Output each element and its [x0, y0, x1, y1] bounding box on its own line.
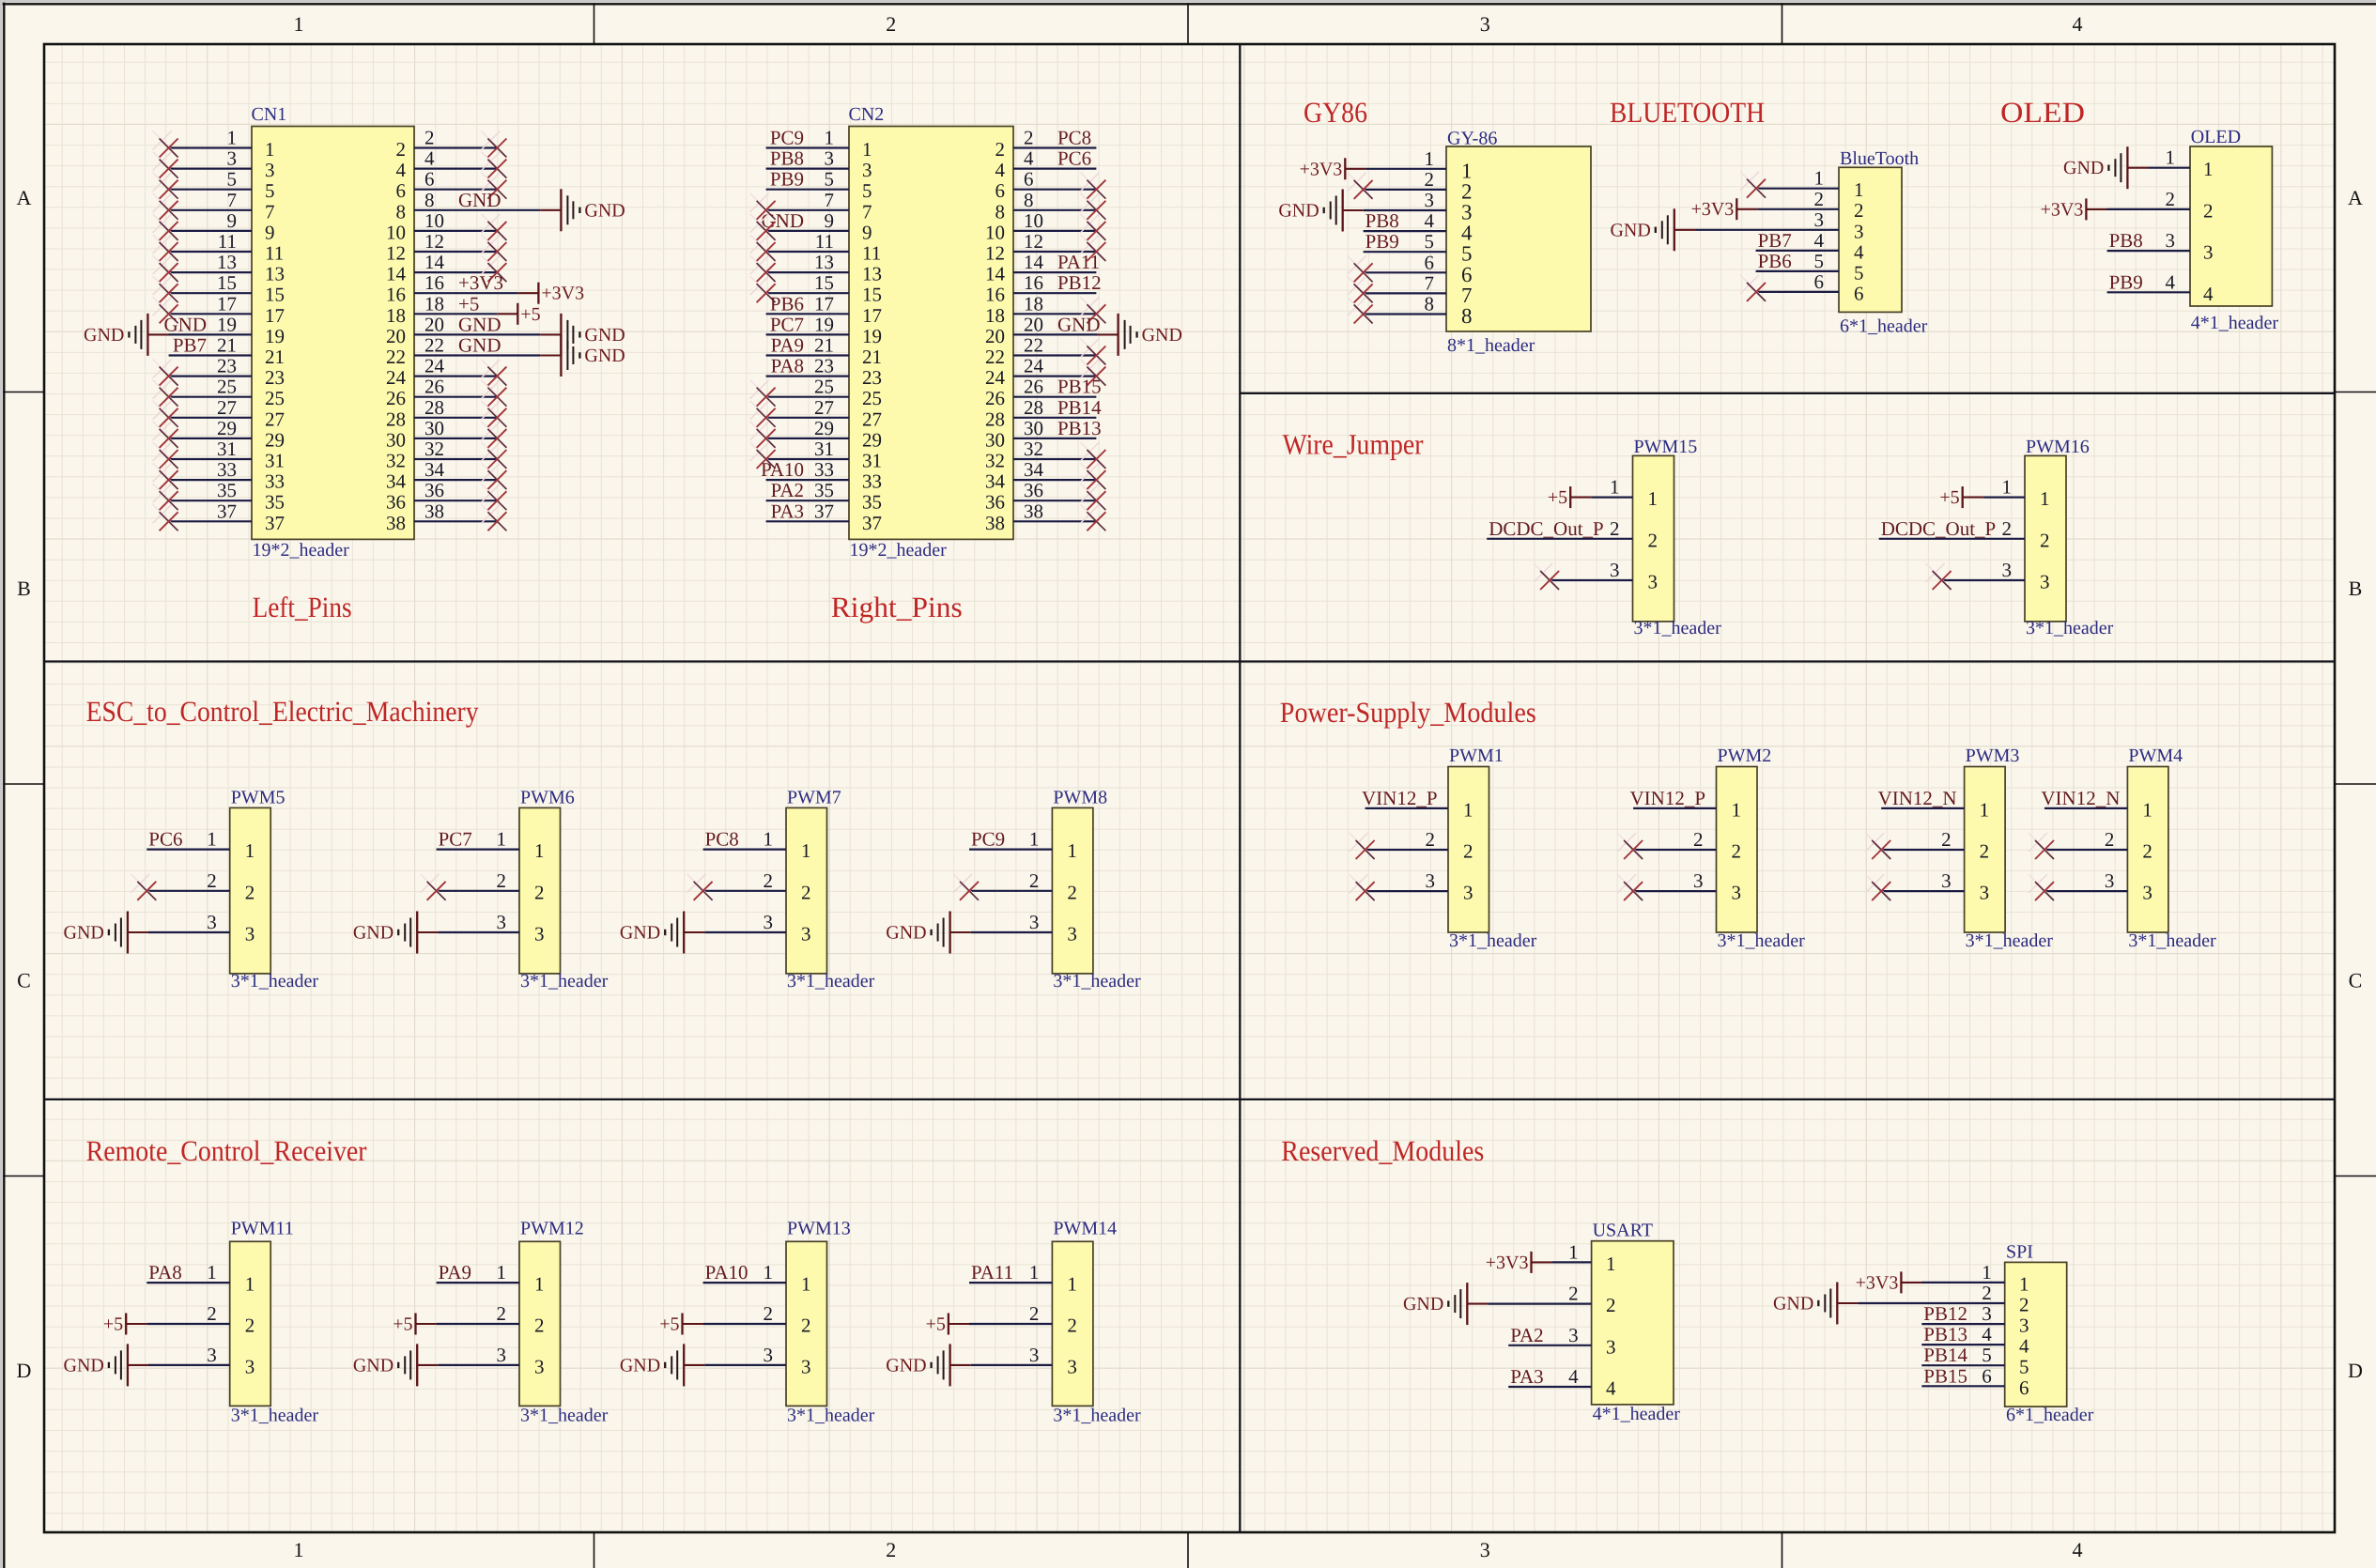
- pin number 32 (CN2): [1024, 438, 1043, 460]
- wire PWM11 pin 3: [148, 1364, 230, 1366]
- svg-text:38: 38: [386, 512, 406, 534]
- wire PWM16 pin 3: [1942, 579, 2025, 581]
- pin number 30 (CN2): [1024, 417, 1043, 439]
- wire PWM16 pin 2: [1879, 538, 2025, 540]
- PWM16 inside pin numbers: [2040, 487, 2050, 592]
- no-connect X PWM2 pin 2: [1617, 833, 1643, 859]
- svg-text:3: 3: [1463, 882, 1473, 904]
- section title Wire_Jumper: [1283, 428, 1425, 461]
- no-connect X CN1 pin 28: [481, 401, 506, 427]
- svg-text:PC8: PC8: [705, 828, 739, 851]
- svg-text:5: 5: [825, 168, 835, 191]
- svg-text:10: 10: [386, 221, 406, 243]
- svg-text:+3V3: +3V3: [458, 271, 503, 294]
- no-connect X CN1 pin 1: [153, 131, 178, 158]
- no-connect X CN1 pin 26: [481, 380, 506, 407]
- ground GND at PWM8 pin 3: [886, 912, 949, 954]
- wire CN2 pin 34: [1013, 479, 1096, 481]
- svg-text:GND: GND: [584, 325, 625, 346]
- svg-text:34: 34: [985, 470, 1006, 493]
- svg-text:Right_Pins: Right_Pins: [831, 591, 963, 623]
- no-connect X CN2 pin 36: [1080, 484, 1105, 510]
- net label GND (CN1 pin 22): [458, 334, 501, 357]
- svg-text:PA9: PA9: [439, 1261, 471, 1284]
- pin number 9 (CN2): [825, 209, 835, 232]
- no-connect X CN2 pin 7: [750, 193, 776, 220]
- svg-text:PWM13: PWM13: [787, 1219, 851, 1239]
- net label PB6 (BlueTooth pin 5): [1758, 250, 1792, 272]
- svg-text:26: 26: [985, 387, 1005, 409]
- pin number 2 (PWM16): [2002, 517, 2013, 540]
- svg-text:26: 26: [424, 376, 444, 398]
- svg-text:PB14: PB14: [1057, 396, 1102, 419]
- svg-text:3*1_header: 3*1_header: [1634, 618, 1722, 638]
- pin number 35 (CN1): [217, 479, 237, 501]
- svg-text:3: 3: [265, 159, 275, 181]
- net label GND (CN1 pin 19): [164, 313, 208, 335]
- svg-text:31: 31: [265, 450, 285, 472]
- pin number 3 (PWM7): [764, 911, 774, 933]
- svg-text:11: 11: [265, 242, 284, 265]
- pin number 19 (CN1): [217, 313, 237, 335]
- svg-text:A: A: [2348, 186, 2363, 209]
- net label PB9 (OLED pin 4): [2109, 270, 2143, 293]
- svg-text:5: 5: [265, 179, 275, 202]
- header SPI (6*1_header): [2005, 1242, 2094, 1425]
- svg-text:28: 28: [985, 407, 1005, 430]
- wire PWM5 pin 1: [147, 848, 229, 850]
- svg-text:GND: GND: [164, 313, 208, 335]
- ground GND at PWM7 pin 3: [620, 912, 684, 954]
- svg-text:GND: GND: [886, 923, 926, 944]
- wire GY-86 pin 5: [1364, 251, 1446, 253]
- svg-text:25: 25: [814, 376, 834, 398]
- net label PB8 (GY-86 pin 4): [1365, 209, 1399, 232]
- pin number 3 (PWM11): [207, 1344, 217, 1366]
- no-connect X PWM7 pin 2: [687, 874, 713, 900]
- no-connect X CN1 pin 13: [153, 255, 178, 282]
- svg-text:CN1: CN1: [252, 104, 287, 125]
- svg-text:4*1_header: 4*1_header: [1593, 1404, 1681, 1424]
- pin number 5 (SPI): [1982, 1344, 1992, 1366]
- no-connect X CN2 pin 31: [750, 442, 776, 469]
- wire GY-86 pin 1: [1365, 168, 1446, 170]
- svg-text:13: 13: [217, 251, 237, 273]
- wire PWM14 pin 2: [969, 1323, 1052, 1325]
- svg-text:3*1_header: 3*1_header: [1449, 930, 1537, 951]
- svg-text:GND: GND: [84, 325, 124, 346]
- net label PB8 (OLED pin 3): [2109, 229, 2143, 252]
- svg-text:15: 15: [862, 284, 882, 306]
- pin number 5 (CN2): [825, 168, 835, 191]
- wire CN2 pin 4: [1013, 168, 1096, 170]
- svg-text:PA10: PA10: [761, 458, 804, 481]
- wire CN2 pin 2: [1013, 146, 1096, 148]
- ground GND at CN1 pin 8: [561, 189, 625, 231]
- wire PWM4 pin 1: [2044, 807, 2127, 809]
- pin number 2 (PWM8): [1029, 869, 1040, 892]
- svg-text:27: 27: [814, 396, 834, 419]
- svg-text:18: 18: [985, 304, 1005, 327]
- wire PWM3 pin 3: [1881, 890, 1964, 892]
- pin number 28 (CN2): [1024, 396, 1043, 419]
- pin number 1 (CN1): [227, 127, 238, 149]
- svg-text:33: 33: [265, 470, 285, 493]
- net label PB14 (CN2 pin 28): [1057, 396, 1102, 419]
- header OLED (4*1_header): [2190, 127, 2278, 333]
- PWM6 inside pin numbers: [534, 839, 545, 945]
- pin number 25 (CN1): [217, 376, 237, 398]
- svg-text:GND: GND: [584, 346, 625, 366]
- svg-text:5: 5: [1425, 230, 1435, 253]
- pin number 6 (SPI): [1982, 1364, 1992, 1387]
- PWM8 inside pin numbers: [1067, 839, 1077, 945]
- net label PC8 (CN2 pin 2): [1057, 127, 1091, 149]
- svg-text:27: 27: [217, 396, 237, 419]
- svg-text:35: 35: [862, 491, 882, 514]
- wire CN1 pin 7: [169, 209, 252, 211]
- pin number 2 (PWM2): [1693, 828, 1704, 851]
- svg-text:PB13: PB13: [1057, 417, 1102, 439]
- svg-text:3: 3: [764, 911, 774, 933]
- header CN1 (19*2_header): [252, 104, 415, 561]
- wire CN2 pin 3: [766, 168, 849, 170]
- net label PB8 (CN2 pin 3): [770, 147, 804, 170]
- CN1 inside pin numbers: [265, 138, 407, 534]
- svg-text:Reserved_Modules: Reserved_Modules: [1281, 1134, 1484, 1167]
- net label PB9 (GY-86 pin 5): [1365, 230, 1399, 253]
- svg-text:3*1_header: 3*1_header: [1966, 930, 2054, 951]
- svg-text:5: 5: [227, 168, 238, 191]
- wire PWM13 pin 1: [703, 1282, 786, 1284]
- column label 4 (top): [2073, 12, 2083, 36]
- svg-text:2: 2: [1568, 1283, 1579, 1305]
- pin number 4 (CN1): [424, 147, 435, 170]
- svg-text:GND: GND: [458, 189, 501, 211]
- svg-text:+5: +5: [393, 1314, 412, 1335]
- no-connect X CN2 pin 13: [750, 255, 776, 282]
- wire PWM15 pin 3: [1550, 579, 1632, 581]
- power +5 at PWM11 pin 2: [103, 1314, 147, 1335]
- svg-text:2: 2: [1426, 828, 1436, 851]
- svg-text:PWM4: PWM4: [2128, 746, 2183, 766]
- wire CN2 pin 26: [1013, 396, 1096, 398]
- column label 1 (bottom): [294, 1538, 304, 1561]
- svg-text:37: 37: [265, 512, 285, 534]
- svg-text:3*1_header: 3*1_header: [231, 971, 319, 992]
- svg-text:PWM15: PWM15: [1634, 437, 1698, 457]
- wire CN1 pin 37: [169, 520, 252, 522]
- svg-text:DCDC_Out_P: DCDC_Out_P: [1489, 517, 1604, 540]
- svg-text:8: 8: [1461, 304, 1473, 328]
- svg-text:PB9: PB9: [2109, 270, 2143, 293]
- pin number 36 (CN1): [424, 479, 444, 501]
- svg-text:PA2: PA2: [771, 479, 804, 501]
- pin number 24 (CN2): [1024, 355, 1044, 377]
- svg-text:PC7: PC7: [439, 828, 472, 851]
- power +3V3 at GY-86 pin 1: [1300, 158, 1366, 179]
- svg-text:2: 2: [1425, 168, 1435, 191]
- pin number 21 (CN2): [814, 334, 834, 357]
- wire CN2 pin 38: [1013, 520, 1096, 522]
- svg-text:GY-86: GY-86: [1447, 129, 1497, 149]
- svg-text:3: 3: [1067, 1355, 1077, 1377]
- svg-text:29: 29: [814, 417, 834, 439]
- wire PWM3 pin 2: [1881, 849, 1964, 851]
- wire CN2 pin 18: [1013, 313, 1096, 315]
- pin number 21 (CN1): [217, 334, 237, 357]
- pin number 1 (PWM14): [1029, 1261, 1040, 1284]
- wire BlueTooth pin 2: [1757, 208, 1839, 210]
- no-connect X PWM1 pin 2: [1350, 833, 1375, 859]
- svg-text:13: 13: [814, 251, 834, 273]
- svg-text:20: 20: [985, 325, 1005, 347]
- pin number 11 (CN1): [218, 230, 237, 253]
- svg-text:2: 2: [207, 869, 217, 892]
- wire CN1 pin 32: [414, 458, 497, 460]
- svg-text:6: 6: [396, 179, 407, 202]
- svg-text:2: 2: [1854, 199, 1864, 222]
- pin number 1 (BlueTooth): [1814, 167, 1825, 190]
- pin number 20 (CN2): [1024, 313, 1043, 335]
- wire CN2 pin 15: [766, 292, 849, 294]
- svg-text:PA2: PA2: [1510, 1324, 1543, 1346]
- svg-text:3: 3: [1029, 911, 1040, 933]
- wire CN2 pin 29: [766, 438, 849, 439]
- no-connect X CN2 pin 15: [750, 276, 776, 302]
- svg-text:18: 18: [386, 304, 406, 327]
- svg-text:4: 4: [1854, 240, 1864, 263]
- svg-text:3: 3: [207, 1344, 217, 1366]
- no-connect X CN1 pin 30: [481, 422, 506, 448]
- section title Power-Supply_Modules: [1280, 696, 1536, 729]
- BlueTooth inside pin numbers: [1854, 178, 1864, 304]
- svg-text:24: 24: [386, 366, 407, 389]
- svg-text:+3V3: +3V3: [2041, 199, 2084, 220]
- svg-text:+5: +5: [103, 1314, 123, 1335]
- pin number 3 (PWM1): [1426, 869, 1436, 892]
- svg-text:3: 3: [825, 147, 835, 170]
- svg-text:11: 11: [218, 230, 237, 253]
- wire SPI pin 2: [1858, 1302, 2004, 1304]
- net label PA10 (CN2 pin 33): [761, 458, 804, 481]
- wire CN1 pin 25: [169, 396, 252, 398]
- svg-text:1: 1: [1980, 798, 1990, 821]
- pin number 25 (CN2): [814, 376, 834, 398]
- pin number 26 (CN2): [1024, 376, 1043, 398]
- pin number 15 (CN2): [814, 271, 834, 294]
- wire CN1 pin 23: [169, 376, 252, 377]
- pin number 2 (PWM11): [207, 1302, 217, 1325]
- pin number 23 (CN2): [814, 355, 834, 377]
- svg-text:4: 4: [396, 159, 407, 181]
- net label +3V3 (CN1 pin 16): [458, 271, 503, 294]
- no-connect X CN2 pin 32: [1080, 442, 1105, 469]
- wire PWM4 pin 2: [2044, 849, 2127, 851]
- svg-text:31: 31: [862, 450, 882, 472]
- svg-text:2: 2: [2040, 529, 2050, 551]
- svg-text:2: 2: [1693, 828, 1704, 851]
- pin number 5 (GY-86): [1425, 230, 1435, 253]
- svg-text:1: 1: [1648, 487, 1659, 510]
- pin number 10 (CN2): [1024, 209, 1043, 232]
- header PWM5 (3*1_header): [230, 787, 319, 992]
- wire BlueTooth pin 6: [1756, 291, 1839, 293]
- wire CN1 pin 28: [414, 417, 497, 419]
- wire CN2 pin 16: [1013, 292, 1096, 294]
- row label C (right): [2349, 969, 2363, 992]
- svg-text:31: 31: [217, 438, 237, 460]
- pin number 1 (PWM5): [207, 828, 217, 851]
- svg-text:22: 22: [386, 346, 406, 368]
- svg-text:6: 6: [1982, 1364, 1992, 1387]
- wire CN2 pin 10: [1013, 230, 1096, 232]
- column label 2 (top): [886, 12, 896, 36]
- pin number 2 (PWM14): [1029, 1302, 1040, 1325]
- wire PWM6 pin 1: [437, 848, 519, 850]
- section title Left_Pins: [253, 591, 352, 623]
- wire PWM14 pin 1: [969, 1282, 1052, 1284]
- svg-text:GND: GND: [2063, 158, 2104, 178]
- net label PA8 (PWM11 pin 1): [148, 1261, 181, 1284]
- wire GY-86 pin 6: [1364, 271, 1446, 273]
- section title OLED: [2000, 96, 2085, 129]
- section divider vertical: [1239, 44, 1241, 1532]
- svg-text:3*1_header: 3*1_header: [1718, 930, 1806, 951]
- no-connect X CN1 pin 27: [153, 401, 178, 427]
- svg-text:11: 11: [862, 242, 881, 265]
- svg-text:1: 1: [1606, 1253, 1616, 1275]
- pin number 3 (BlueTooth): [1814, 208, 1825, 231]
- svg-text:2: 2: [2142, 840, 2152, 863]
- svg-text:3: 3: [2203, 241, 2214, 264]
- svg-text:7: 7: [227, 189, 238, 211]
- power +5 at PWM14 pin 2: [926, 1314, 969, 1335]
- svg-text:1: 1: [534, 1273, 545, 1296]
- pin number 1 (PWM6): [497, 828, 507, 851]
- svg-text:1: 1: [245, 1273, 255, 1296]
- svg-text:PWM16: PWM16: [2026, 437, 2090, 457]
- svg-text:PC6: PC6: [1057, 147, 1091, 170]
- svg-text:1: 1: [1029, 1261, 1040, 1284]
- svg-text:24: 24: [424, 355, 445, 377]
- pin number 37 (CN2): [814, 500, 834, 522]
- wire PWM11 pin 1: [147, 1282, 229, 1284]
- svg-text:6: 6: [995, 179, 1006, 202]
- wire CN1 pin 4: [414, 168, 497, 170]
- wire CN1 pin 19: [169, 333, 253, 335]
- svg-text:13: 13: [265, 263, 285, 285]
- svg-text:3*1_header: 3*1_header: [2128, 930, 2216, 951]
- wire PWM15 pin 2: [1487, 538, 1632, 540]
- svg-text:+5: +5: [1939, 487, 1959, 508]
- svg-text:3: 3: [245, 923, 255, 945]
- net label PC8 (PWM7 pin 1): [705, 828, 739, 851]
- pin number 12 (CN1): [424, 230, 444, 253]
- svg-text:14: 14: [1024, 251, 1044, 273]
- no-connect X BlueTooth pin 6: [1740, 275, 1766, 301]
- svg-text:19*2_header: 19*2_header: [253, 540, 350, 561]
- svg-text:7: 7: [862, 200, 872, 223]
- svg-text:28: 28: [1024, 396, 1043, 419]
- svg-text:23: 23: [862, 366, 882, 389]
- section title ESC_to_Control_Electric_Machinery: [86, 695, 479, 728]
- wire CN2 pin 28: [1013, 417, 1096, 419]
- svg-text:PB7: PB7: [1758, 229, 1792, 252]
- svg-text:3: 3: [1606, 1335, 1616, 1358]
- svg-text:1: 1: [1814, 167, 1825, 190]
- svg-text:CN2: CN2: [849, 104, 885, 125]
- svg-text:5: 5: [2019, 1356, 2029, 1378]
- svg-text:34: 34: [1024, 458, 1044, 481]
- svg-text:26: 26: [1024, 376, 1043, 398]
- wire CN1 pin 31: [169, 458, 252, 460]
- svg-text:2: 2: [764, 869, 774, 892]
- svg-text:2: 2: [1067, 881, 1077, 903]
- svg-text:PB12: PB12: [1057, 271, 1102, 294]
- svg-text:2: 2: [1814, 188, 1825, 210]
- pin number 3 (CN1): [227, 147, 238, 170]
- ground GND at OLED pin 1: [2063, 146, 2127, 189]
- svg-text:17: 17: [814, 292, 834, 315]
- power +5 at PWM12 pin 2: [393, 1314, 436, 1335]
- wire CN1 pin 8: [414, 209, 540, 211]
- svg-text:9: 9: [265, 221, 275, 243]
- net label GND (CN1 pin 20): [458, 313, 501, 335]
- svg-text:15: 15: [217, 271, 237, 294]
- svg-text:14: 14: [985, 263, 1006, 285]
- svg-text:4: 4: [2203, 283, 2214, 305]
- wire CN1 pin 1: [169, 146, 252, 148]
- ground GND at PWM14 pin 3: [886, 1344, 949, 1386]
- svg-text:37: 37: [862, 512, 882, 534]
- ground GND at USART pin 2: [1403, 1283, 1467, 1325]
- svg-text:3: 3: [1982, 1302, 1992, 1325]
- wire CN1 pin 9: [169, 230, 252, 232]
- svg-text:3: 3: [534, 1355, 545, 1377]
- svg-text:PWM11: PWM11: [231, 1219, 294, 1239]
- row label A (right): [2348, 186, 2363, 209]
- pin number 8 (GY-86): [1425, 293, 1435, 315]
- svg-text:33: 33: [217, 458, 237, 481]
- header PWM15 (3*1_header): [1633, 437, 1722, 638]
- net label +5 (CN1 pin 18): [458, 292, 479, 315]
- svg-text:GND: GND: [458, 313, 501, 335]
- wire PWM8 pin 1: [969, 848, 1052, 850]
- column label 2 (bottom): [886, 1538, 896, 1561]
- svg-text:38: 38: [1024, 500, 1043, 522]
- svg-text:6: 6: [424, 168, 435, 191]
- wire USART pin 2: [1488, 1302, 1591, 1304]
- no-connect X CN1 pin 3: [153, 152, 178, 178]
- header GY-86 (8*1_header): [1446, 129, 1591, 357]
- column label 3 (top): [1480, 12, 1490, 36]
- header PWM3 (3*1_header): [1965, 746, 2054, 951]
- svg-text:GND: GND: [353, 923, 393, 944]
- pin number 23 (CN1): [217, 355, 237, 377]
- svg-text:3: 3: [1425, 189, 1435, 211]
- svg-text:2: 2: [801, 881, 811, 903]
- pin number 2 (SPI): [1982, 1282, 1992, 1304]
- wire PWM5 pin 2: [147, 890, 229, 892]
- wire CN1 pin 22: [414, 354, 540, 356]
- svg-text:29: 29: [862, 428, 882, 451]
- net label PB15 (SPI pin 6): [1923, 1364, 1967, 1387]
- svg-text:14: 14: [386, 263, 407, 285]
- svg-text:32: 32: [386, 450, 406, 472]
- svg-text:PC9: PC9: [971, 828, 1005, 851]
- svg-text:1: 1: [1067, 839, 1077, 862]
